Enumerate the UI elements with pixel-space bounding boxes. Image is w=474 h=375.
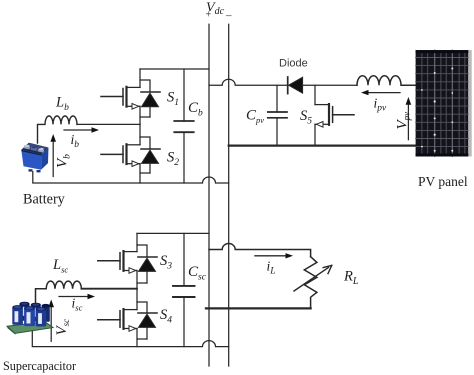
transistor S3 [98, 233, 157, 288]
arrow ipv [361, 90, 400, 95]
wire: battery midpoint rail [77, 123, 140, 125]
capacitor Csc [173, 233, 195, 346]
wire: load top rail from left bus with hop over right bus [209, 244, 311, 257]
arrow ib [64, 127, 99, 132]
svg-text:Diode: Diode [279, 58, 308, 70]
svg-text:Lb: Lb [55, 95, 69, 114]
wire: load bottom rail [206, 307, 311, 309]
svg-text:PV panel: PV panel [418, 174, 468, 189]
svg-text:isc: isc [72, 296, 83, 313]
transistor S5 [315, 85, 354, 145]
resistor RL (variable) [294, 257, 332, 309]
svg-text:ipv: ipv [374, 96, 388, 114]
inductor Lsc [36, 281, 82, 303]
wire: left DC bus (+) [208, 24, 210, 366]
svg-text:iL: iL [267, 259, 276, 277]
wire: supercap bridge bottom rail with hop over left bus to right bus [32, 330, 228, 347]
battery image (blue 3D cell) [21, 143, 48, 173]
arrow Vb [50, 134, 56, 177]
svg-text:Vsc: Vsc [54, 319, 71, 336]
PV panel image [416, 50, 472, 156]
arrow Vpv [406, 97, 412, 140]
svg-text:S3: S3 [160, 253, 172, 272]
inductor Lb [38, 116, 78, 143]
node Vdc label [206, 1, 233, 22]
svg-text:S1: S1 [167, 90, 179, 109]
arrow iL [255, 253, 293, 258]
transistor S4 [98, 289, 157, 347]
svg-text:+: + [206, 10, 212, 21]
svg-text:S5: S5 [300, 108, 312, 127]
capacitor Cb [174, 69, 193, 183]
wire: supercap midpoint rail [81, 288, 137, 290]
svg-text:–: – [225, 10, 232, 22]
svg-text:Battery: Battery [23, 192, 66, 208]
arrow isc [59, 294, 95, 299]
arrow Vsc [48, 300, 54, 342]
wire: supercap bridge top rail to left bus [137, 232, 209, 234]
svg-text:S4: S4 [160, 307, 172, 326]
svg-text:Csc: Csc [188, 264, 207, 283]
svg-text:ib: ib [71, 132, 80, 150]
wire: PV top rail from left bus with hop over right bus [209, 79, 287, 85]
transistor S1 [101, 69, 160, 124]
svg-text:S2: S2 [167, 150, 179, 169]
svg-text:Vpv: Vpv [395, 112, 412, 130]
svg-text:Supercapacitor: Supercapacitor [3, 359, 76, 373]
svg-text:Cpv: Cpv [246, 108, 264, 126]
wire: PV bottom rail from right bus to panel [229, 145, 416, 147]
svg-text:Lsc: Lsc [52, 257, 68, 275]
svg-text:Cb: Cb [188, 100, 203, 119]
transistor S2 [101, 124, 160, 183]
diode D (PV blocking diode) [288, 77, 357, 94]
inductor Lpv [357, 76, 416, 86]
supercapacitor image (blue caps on green board) [7, 302, 53, 335]
capacitor Cpv [268, 85, 287, 145]
wire: battery bridge top rail to left bus [140, 68, 209, 70]
wire: right DC bus (-) [228, 24, 230, 366]
svg-text:Vb: Vb [55, 154, 73, 168]
wire: battery bridge bottom rail with hop over left bus to right bus [33, 172, 229, 184]
svg-text:RL: RL [343, 269, 359, 288]
